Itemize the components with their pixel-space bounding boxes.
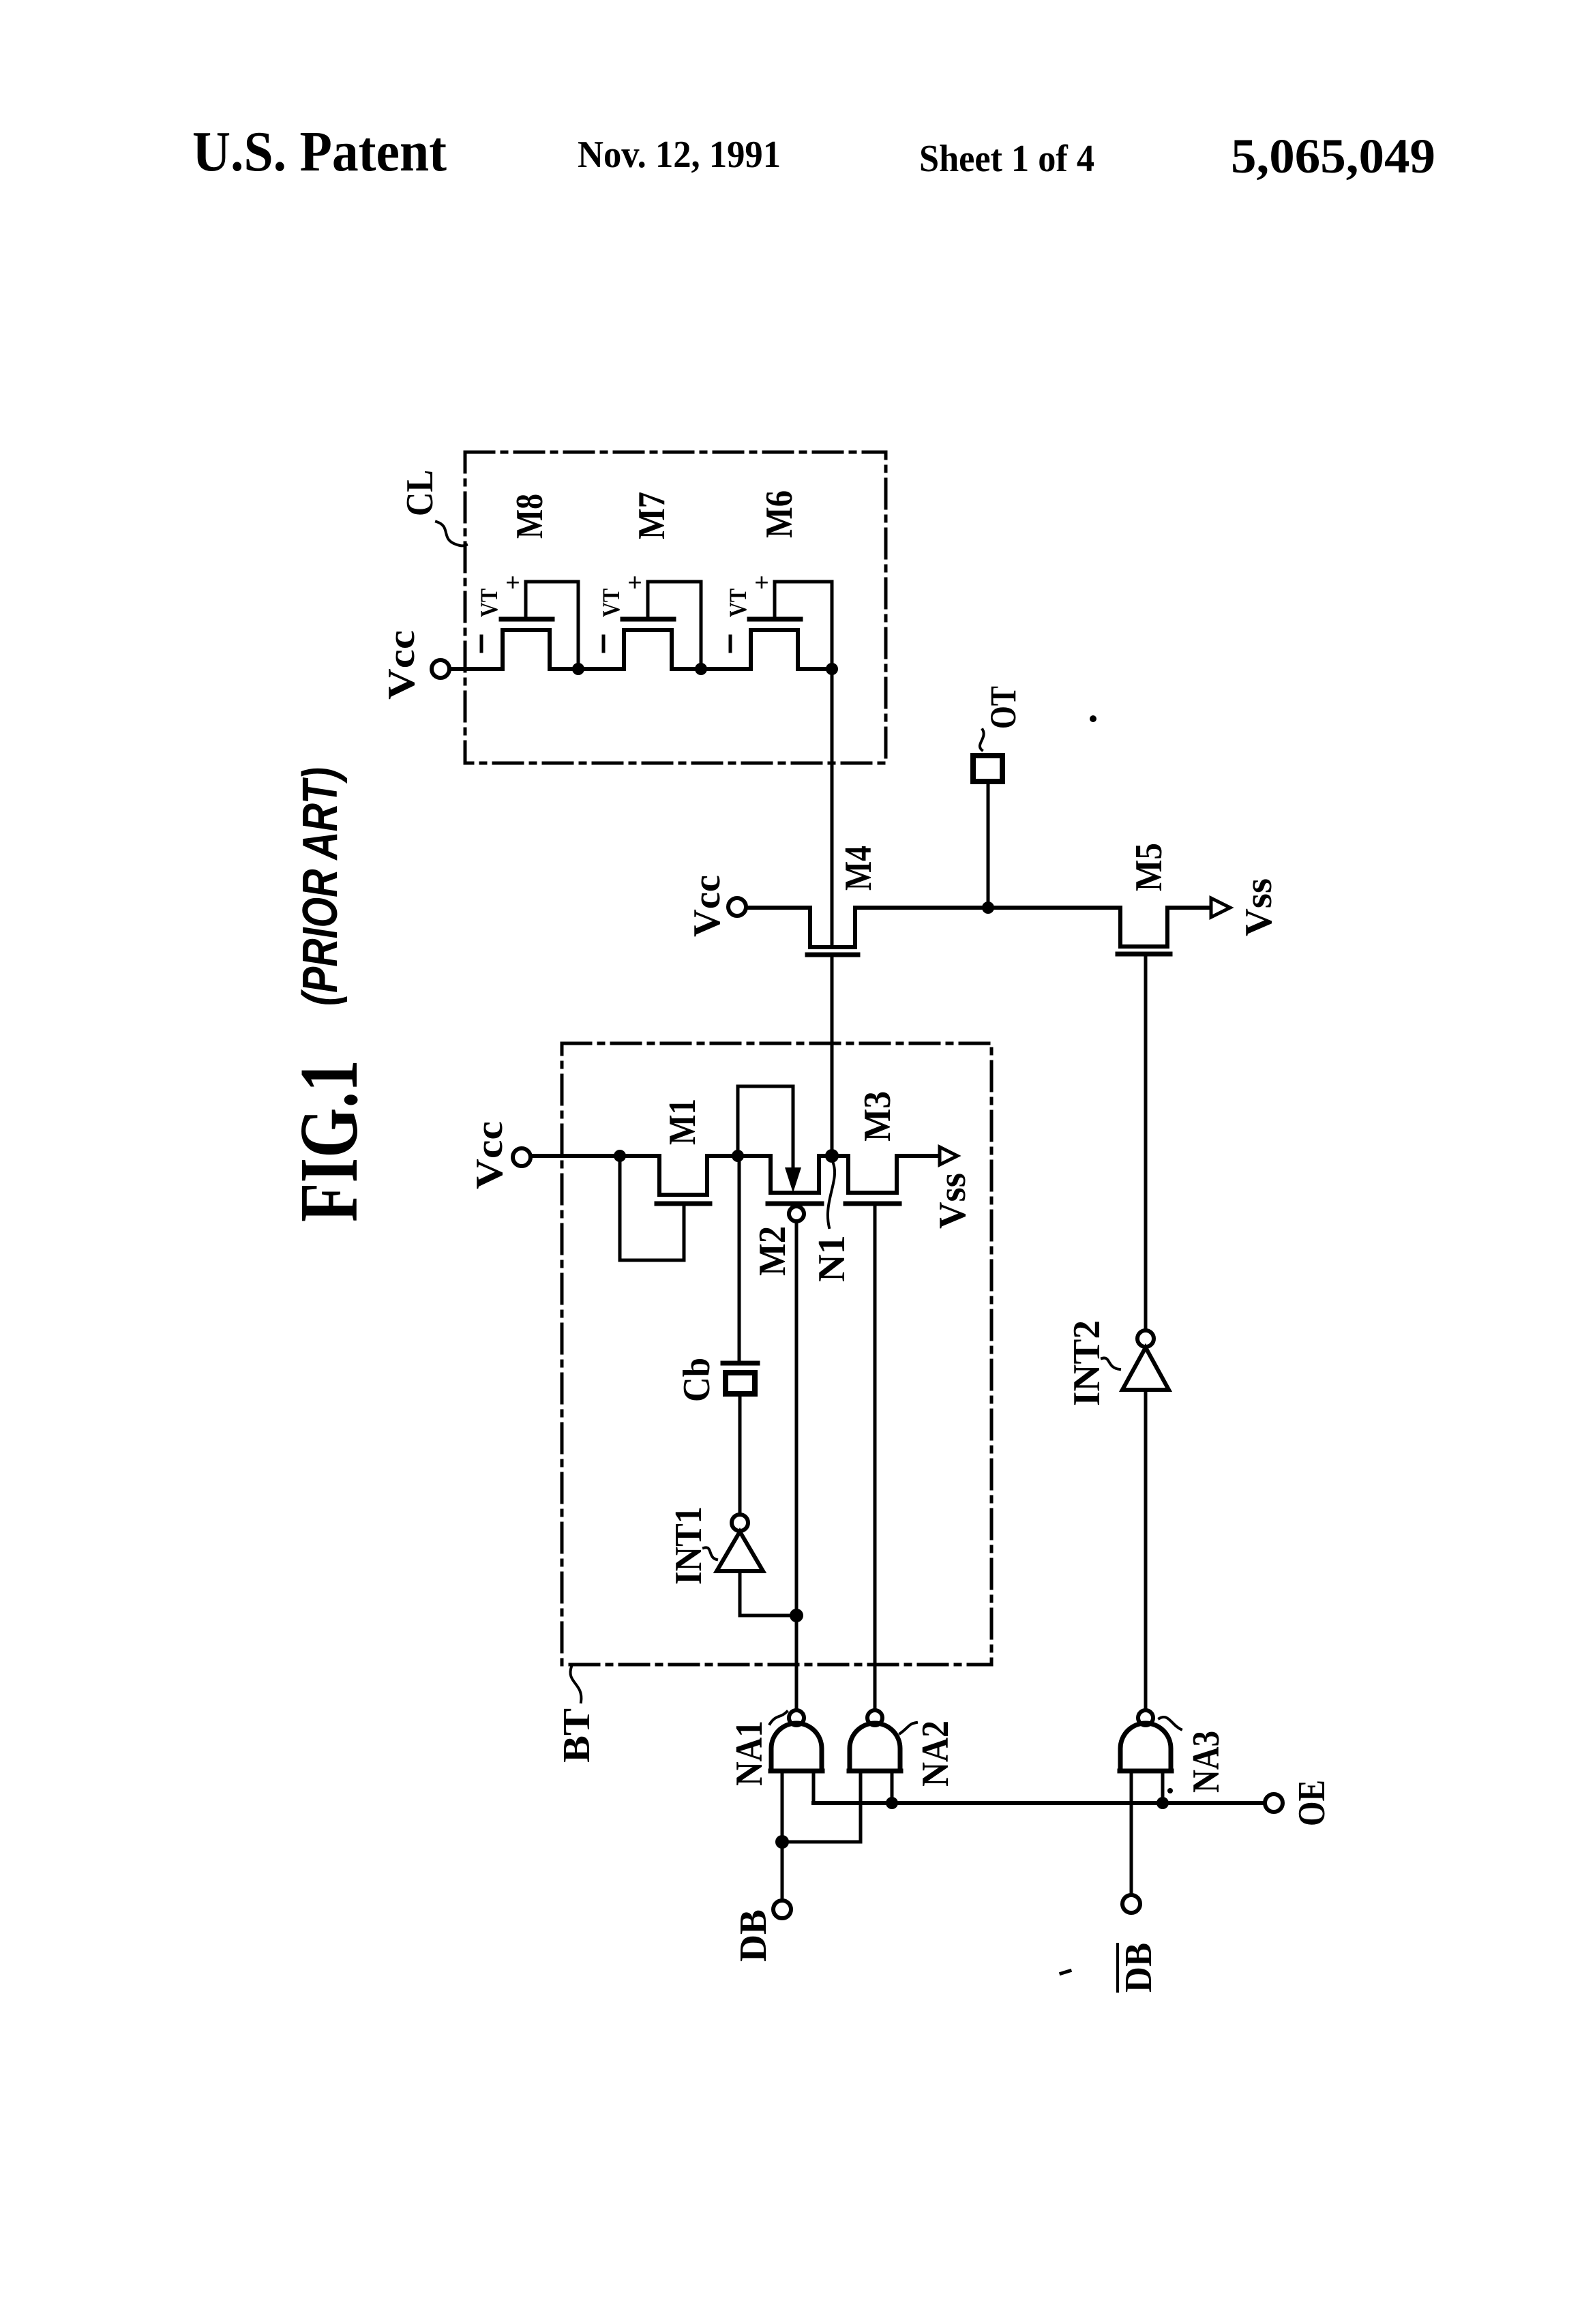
OT leader squiggle [980, 730, 984, 750]
junction M1 gate tie [614, 1150, 626, 1162]
M5 gate bar [1118, 952, 1170, 957]
OT terminal box [973, 756, 1002, 781]
wire M4 to M5 [855, 906, 1120, 910]
DB terminal [773, 1901, 791, 1918]
M8 gate loop wire [526, 582, 578, 669]
svg-text:Vcc: Vcc [468, 1121, 511, 1189]
speck near OT [1090, 715, 1096, 722]
wire Vcc to M8 [449, 667, 503, 671]
svg-text:INT1: INT1 [668, 1506, 710, 1585]
transistor M6 channel bump [751, 630, 798, 669]
speck near DBbar [1061, 1971, 1070, 1973]
transistor M4 channel bump [810, 908, 855, 947]
svg-text:DB: DB [1118, 1943, 1160, 1993]
Vss arrow (M3) [940, 1147, 957, 1165]
svg-text:Vss: Vss [1238, 878, 1280, 936]
svg-text:U.S. Patent: U.S. Patent [192, 120, 447, 183]
inverter INT2 triangle [1122, 1347, 1169, 1390]
NA1 leader squiggle [770, 1712, 787, 1724]
svg-text:M4: M4 [837, 846, 880, 891]
M4 gate bar [807, 953, 858, 957]
svg-text:N1: N1 [811, 1235, 853, 1282]
NA2 right input wire [891, 1771, 894, 1803]
svg-text:M5: M5 [1128, 843, 1170, 891]
M7 minus label [602, 636, 606, 651]
wire junction down to Cb [738, 1156, 741, 1361]
M2 gate bubble [789, 1206, 804, 1221]
svg-text:5,065,049: 5,065,049 [1231, 129, 1435, 183]
svg-text:+: + [627, 569, 642, 597]
NA3 right input wire [1161, 1771, 1165, 1803]
NA3 body base bar [1120, 1769, 1171, 1774]
M1 gate loop wire [620, 1156, 684, 1260]
junction M7-M6 [695, 663, 707, 675]
NAND NA3 bubble [1138, 1710, 1153, 1725]
M3 gate bar [846, 1202, 899, 1206]
capacitor Cb top plate [723, 1361, 758, 1366]
junction M6 output [826, 663, 838, 675]
svg-text:OT: OT [983, 686, 1024, 729]
svg-text:M8: M8 [509, 494, 551, 539]
svg-text:VT: VT [475, 589, 503, 617]
svg-text:VT: VT [597, 589, 625, 617]
svg-text:+: + [754, 569, 769, 597]
svg-text:Vcc: Vcc [380, 630, 423, 700]
OE bus wire [814, 1801, 1265, 1805]
M7 gate loop wire [648, 582, 701, 669]
transistor M7 channel bump [624, 630, 672, 669]
svg-text:NA3: NA3 [1185, 1731, 1227, 1793]
DBbar terminal [1122, 1895, 1140, 1913]
transistor M1 channel bump [659, 1156, 707, 1195]
M2 gate bar [768, 1202, 822, 1206]
M2 bootstrap loop wire [738, 1086, 793, 1169]
DB link wire to NA2 [782, 1771, 861, 1842]
NA3 leader squiggle [1159, 1717, 1181, 1729]
M1 gate bar [657, 1202, 710, 1206]
junction NA2-OE bus [886, 1797, 898, 1809]
M2 loop arrowhead [785, 1167, 801, 1193]
inverter INT1 triangle [717, 1532, 763, 1571]
wire M5 gate to INT2 [1144, 957, 1148, 1330]
svg-text:Cb: Cb [676, 1358, 718, 1402]
wire INT1 input [740, 1571, 796, 1615]
wire Vcc to M4 [746, 906, 810, 910]
wire M2 to M3 [819, 1154, 848, 1158]
svg-text:M7: M7 [631, 492, 673, 539]
svg-text:BT: BT [556, 1708, 598, 1763]
NA1 left input wire to DB [781, 1771, 784, 1901]
transistor M5 channel bump [1120, 908, 1167, 947]
svg-text:Sheet 1 of 4: Sheet 1 of 4 [919, 138, 1094, 180]
NA3 left input wire to DBbar [1130, 1771, 1133, 1895]
M6 gate bar [749, 617, 801, 622]
NA1 body base bar [771, 1769, 822, 1774]
junction INT1 input / NA1 output [790, 1609, 803, 1622]
svg-text:Vss: Vss [931, 1173, 974, 1229]
wire M6 to junction [798, 667, 832, 671]
node N1 junction [825, 1149, 839, 1163]
BT block dash-dot box [562, 1043, 991, 1665]
M8 minus label [480, 636, 483, 651]
CL block dash-dot box [465, 452, 886, 763]
OE terminal [1265, 1794, 1283, 1812]
wire M5 to Vss arrow [1167, 906, 1211, 910]
wire Cb to INT1 [738, 1397, 742, 1515]
speck near NA3 [1167, 1788, 1173, 1793]
Vcc terminal (BT) [513, 1148, 531, 1166]
INT1 leader squiggle [704, 1547, 717, 1560]
svg-text:Vcc: Vcc [686, 875, 728, 937]
NA2 body base bar [849, 1769, 901, 1774]
M3 gate wire down to NA2 [874, 1206, 877, 1710]
junction DB [775, 1835, 789, 1849]
wire OT box to bus [987, 784, 990, 908]
M7 gate bar [623, 617, 674, 622]
Vcc terminal (CL) [432, 660, 449, 678]
NAND NA2 body [850, 1723, 900, 1771]
svg-text:+: + [505, 569, 520, 597]
junction OT [982, 902, 994, 914]
svg-text:M1: M1 [661, 1099, 704, 1145]
svg-text:FIG.1: FIG.1 [283, 1060, 375, 1222]
wire M3 to Vss arrow [897, 1154, 940, 1158]
transistor M8 channel bump [503, 630, 550, 669]
svg-text:M6: M6 [758, 490, 801, 538]
svg-text:NA2: NA2 [914, 1720, 957, 1787]
Vss arrow (M5) [1211, 898, 1230, 917]
svg-text:OE: OE [1291, 1780, 1333, 1826]
svg-text:(PRIOR ART): (PRIOR ART) [293, 767, 348, 1006]
svg-text:Nov. 12, 1991: Nov. 12, 1991 [578, 134, 781, 176]
DBbar overline [1116, 1944, 1119, 1991]
NAND NA1 body [771, 1723, 822, 1771]
NA1 right input wire to OE bus [812, 1771, 816, 1803]
M4 gate wire down to N1 [831, 957, 834, 1156]
INT2 leader squiggle [1102, 1358, 1120, 1369]
Vcc terminal (M4) [728, 898, 746, 916]
svg-text:DB: DB [732, 1909, 775, 1962]
capacitor Cb body box [726, 1373, 755, 1394]
inverter INT2 bubble [1137, 1330, 1154, 1347]
svg-text:NA1: NA1 [728, 1720, 771, 1786]
svg-text:M2: M2 [751, 1226, 794, 1276]
junction NA3-OE bus [1156, 1797, 1169, 1809]
transistor M3 channel bump [848, 1156, 897, 1193]
wire CL output down to M4 [831, 669, 834, 945]
junction M8-M7 [572, 663, 584, 675]
transistor M2 channel bump [771, 1156, 819, 1193]
wire M7 to M6 [672, 667, 751, 671]
CL leader squiggle [436, 522, 466, 546]
wire INT2 input to NA3 [1144, 1390, 1148, 1710]
wire M1 to M2 [707, 1154, 771, 1158]
wire M8 to M7 [550, 667, 624, 671]
NAND NA1 bubble [789, 1710, 804, 1725]
svg-text:CL: CL [399, 470, 441, 516]
NAND NA3 body [1120, 1723, 1171, 1771]
inverter INT1 bubble [732, 1515, 748, 1531]
NAND NA2 bubble [867, 1710, 882, 1725]
N1 leader squiggle [828, 1163, 835, 1227]
M6 minus label [729, 636, 732, 651]
wire NA1 output to M2 gate [795, 1221, 799, 1710]
junction Cb / M2 loop [732, 1150, 744, 1162]
M8 gate bar [501, 617, 552, 622]
M6 gate loop wire [775, 582, 832, 669]
BT leader squiggle [570, 1667, 581, 1702]
svg-text:INT2: INT2 [1066, 1320, 1108, 1406]
wire Vcc to M1 [531, 1154, 659, 1158]
NA2 leader squiggle [900, 1723, 916, 1733]
svg-text:M3: M3 [856, 1091, 899, 1142]
svg-text:VT: VT [724, 589, 751, 617]
